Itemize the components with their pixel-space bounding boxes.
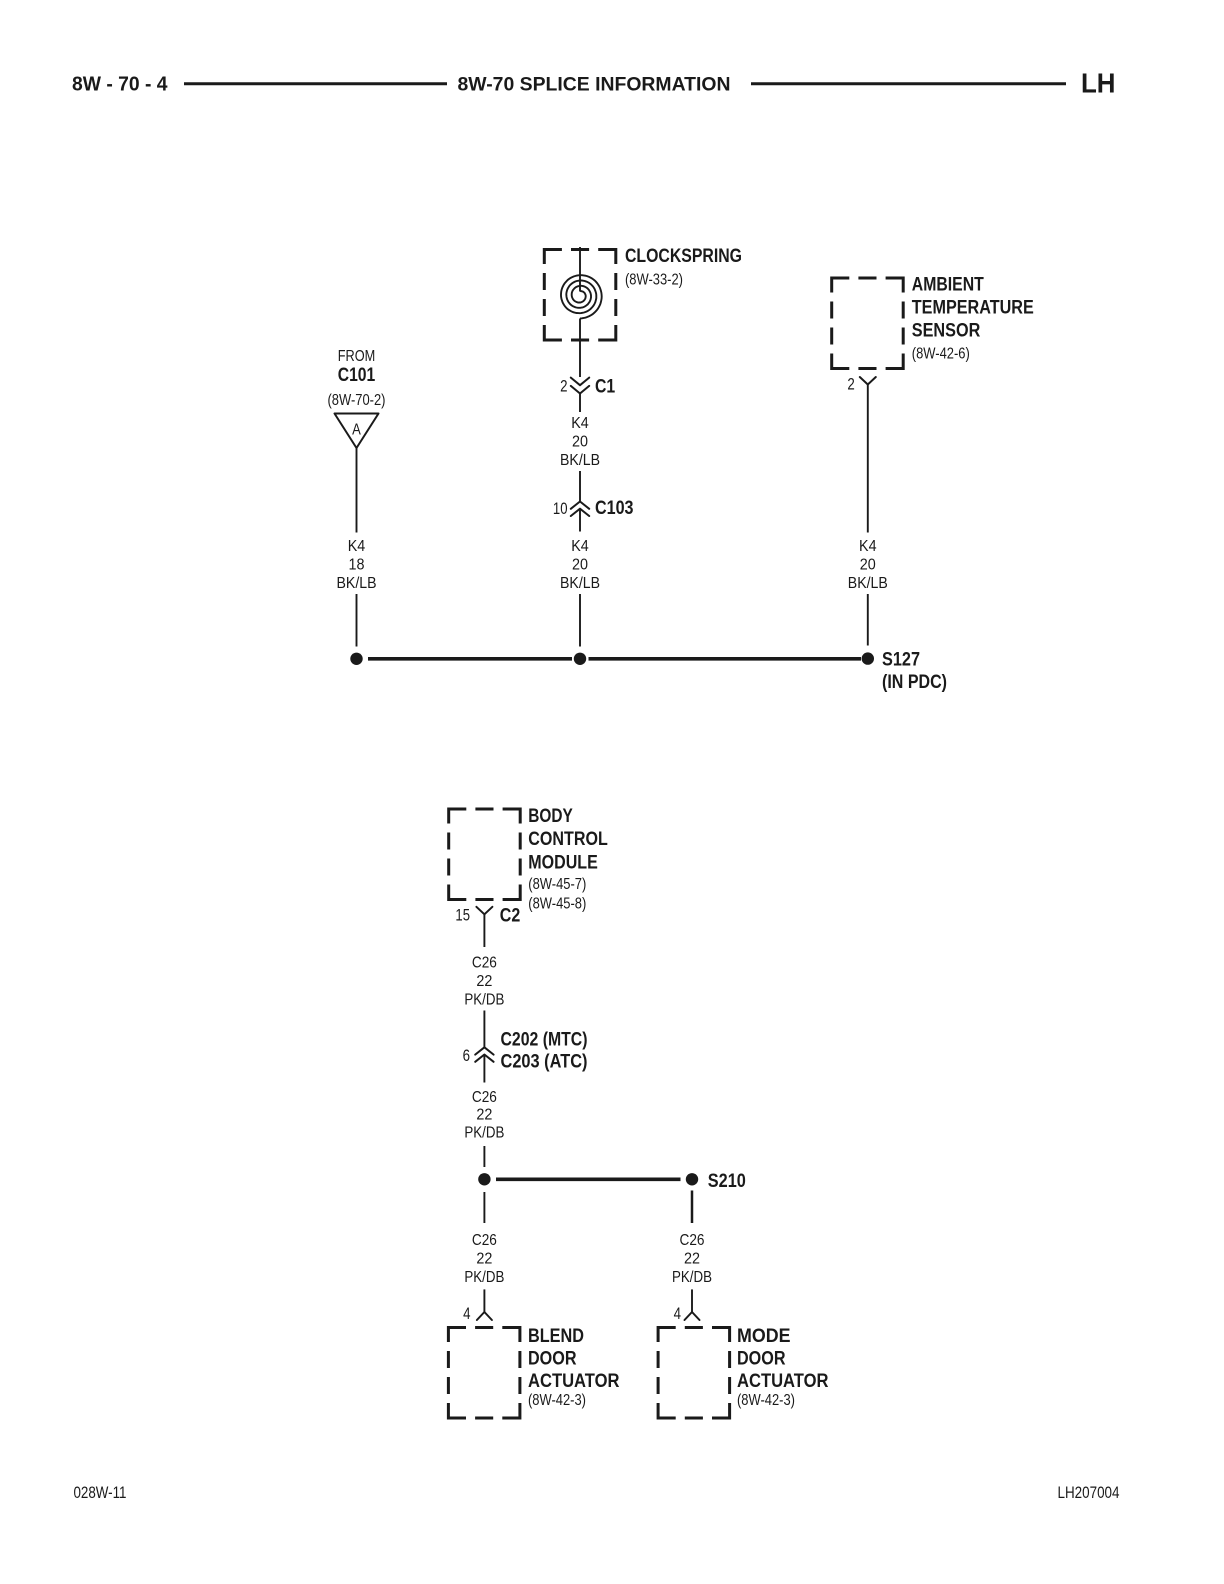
svg-text:22: 22 [476,1250,492,1267]
svg-text:10: 10 [553,500,568,518]
svg-text:C26: C26 [472,955,497,972]
svg-text:FROM: FROM [338,348,376,365]
svg-text:2: 2 [847,376,854,394]
svg-text:4: 4 [674,1305,681,1323]
svg-text:(8W-42-3): (8W-42-3) [737,1392,795,1409]
svg-text:(IN PDC): (IN PDC) [882,672,947,693]
svg-text:A: A [352,422,361,439]
svg-text:C103: C103 [595,498,634,519]
wire clockspring to C1 [579,319,581,378]
wire label to C103 [579,471,581,501]
svg-text:6: 6 [463,1047,470,1065]
svg-text:K4: K4 [859,538,877,555]
wire to mode actuator [691,1289,693,1312]
svg-text:C26: C26 [472,1089,497,1106]
junction dot S210 [686,1173,698,1185]
svg-text:PK/DB: PK/DB [672,1269,712,1286]
svg-text:ACTUATOR: ACTUATOR [528,1371,620,1392]
svg-text:20: 20 [860,557,876,574]
svg-text:20: 20 [572,434,588,451]
svg-text:8W - 70 - 4: 8W - 70 - 4 [72,73,168,95]
clockspring component box (dashed) [543,248,618,342]
connector C202/C203 symbol [475,1047,493,1062]
svg-text:LH207004: LH207004 [1058,1484,1120,1502]
wire to splice left [356,594,358,647]
wire C202 down [483,1055,485,1083]
svg-text:LH: LH [1081,68,1116,99]
svg-text:C2: C2 [500,906,521,927]
svg-text:BK/LB: BK/LB [848,575,888,592]
junction dot left [350,653,362,665]
svg-text:CLOCKSPRING: CLOCKSPRING [625,246,742,267]
mode door actuator box (dashed) [657,1326,732,1420]
svg-text:C203 (ATC): C203 (ATC) [501,1052,588,1073]
junction dot left S210 [478,1173,490,1185]
svg-text:BODY: BODY [528,806,573,827]
svg-text:(8W-42-3): (8W-42-3) [528,1392,586,1409]
wire C2 down [483,914,485,947]
svg-text:22: 22 [476,1107,492,1124]
off-page connector triangle A [335,414,379,449]
svg-text:ACTUATOR: ACTUATOR [737,1371,829,1392]
wire below splice left [483,1192,485,1223]
svg-text:PK/DB: PK/DB [464,1124,504,1141]
splice bus segment 1 [368,657,572,661]
svg-text:C1: C1 [595,377,616,398]
svg-text:22: 22 [684,1250,700,1267]
connector Y at mode actuator [685,1312,700,1320]
svg-text:MODE: MODE [737,1326,791,1347]
wire to splice right [867,594,869,646]
wire sensor down [867,385,869,533]
svg-text:C26: C26 [472,1232,497,1249]
connector C2 Y symbol [476,907,492,915]
wire to blend actuator [483,1289,485,1312]
svg-text:DOOR: DOOR [737,1349,786,1370]
junction dot mid [574,653,586,665]
wire to splice S210 [483,1146,485,1167]
wire from triangle A [356,448,358,533]
connector Y at blend actuator [477,1312,492,1320]
svg-text:18: 18 [349,557,365,574]
svg-text:(8W-33-2): (8W-33-2) [625,272,683,289]
splice bus S210 [496,1178,681,1182]
ambient temperature sensor box (dashed) [830,277,905,371]
blend door actuator box (dashed) [447,1326,522,1420]
connector C1 symbol [571,378,589,394]
svg-text:SENSOR: SENSOR [912,321,981,342]
svg-text:15: 15 [455,906,470,924]
svg-text:22: 22 [476,973,492,990]
svg-text:(8W-45-7): (8W-45-7) [528,876,586,893]
svg-text:PK/DB: PK/DB [464,1269,504,1286]
svg-text:20: 20 [572,557,588,574]
svg-text:DOOR: DOOR [528,1349,577,1370]
svg-text:BK/LB: BK/LB [337,575,377,592]
svg-text:C202 (MTC): C202 (MTC) [501,1030,588,1051]
header rule left [184,82,447,85]
svg-text:CONTROL: CONTROL [528,829,608,850]
svg-text:AMBIENT: AMBIENT [912,275,984,296]
body control module box (dashed) [447,808,522,902]
splice bus segment 2 [589,657,862,661]
svg-text:PK/DB: PK/DB [464,992,504,1009]
wire clockspring top lead [579,247,581,292]
svg-text:C101: C101 [338,365,376,386]
svg-text:S127: S127 [882,650,920,671]
wire below splice right [691,1191,694,1224]
svg-text:BK/LB: BK/LB [560,452,600,469]
junction dot S127 [862,652,874,664]
svg-text:C26: C26 [680,1232,705,1249]
svg-text:4: 4 [463,1305,470,1323]
svg-text:BLEND: BLEND [528,1326,584,1347]
svg-text:MODULE: MODULE [528,853,598,874]
wire to splice mid [579,594,581,647]
svg-text:K4: K4 [571,538,589,555]
header rule right [751,82,1066,85]
svg-text:(8W-45-8): (8W-45-8) [528,895,586,912]
svg-text:K4: K4 [571,415,589,432]
svg-text:BK/LB: BK/LB [560,575,600,592]
svg-text:S210: S210 [708,1171,746,1192]
wire to C202 [483,1011,485,1048]
svg-text:(8W-42-6): (8W-42-6) [912,346,970,363]
svg-text:(8W-70-2): (8W-70-2) [328,392,386,409]
svg-text:8W-70 SPLICE INFORMATION: 8W-70 SPLICE INFORMATION [458,74,731,96]
svg-text:K4: K4 [348,538,366,555]
connector C103 symbol [571,502,589,517]
svg-text:028W-11: 028W-11 [74,1484,127,1502]
wire C103 down [579,509,581,532]
svg-text:2: 2 [560,378,567,396]
wire C1 to label K4 [579,394,581,413]
connector Y at sensor [860,377,876,385]
svg-text:TEMPERATURE: TEMPERATURE [912,298,1034,319]
clockspring coil symbol [561,275,602,318]
